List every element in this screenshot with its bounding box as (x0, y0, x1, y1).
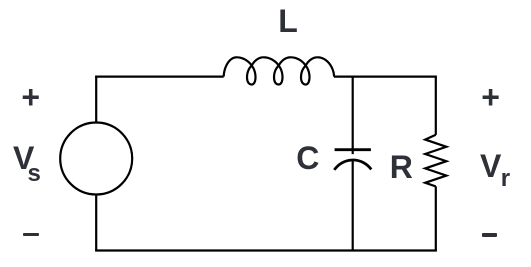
label Vs subscript s (28, 162, 41, 186)
wire capacitor branch lower (352, 160, 354, 250)
label plus left (21, 81, 40, 113)
label R (390, 151, 413, 183)
label Vs main V (13, 142, 34, 174)
resistor R (425, 135, 446, 187)
wire bottom rail (95, 249, 437, 251)
wire right vertical lower (435, 186, 437, 250)
label C (296, 142, 319, 174)
label Vr main V (480, 150, 501, 182)
label minus left (23, 233, 39, 237)
label minus right (482, 233, 497, 237)
inductor L (224, 57, 334, 84)
label L (278, 5, 298, 37)
capacitor C top plate (335, 148, 371, 151)
wire top-right horizontal (334, 75, 437, 77)
wire right vertical upper (435, 77, 437, 135)
wire top-left horizontal (95, 75, 224, 77)
capacitor C bottom curved plate (334, 160, 371, 170)
wire left vertical lower (95, 195, 97, 251)
wire capacitor branch upper (352, 77, 354, 155)
label plus right (481, 81, 500, 113)
voltage source Vs (60, 123, 132, 195)
wire left vertical upper (95, 77, 97, 123)
label Vr subscript r (501, 167, 510, 191)
